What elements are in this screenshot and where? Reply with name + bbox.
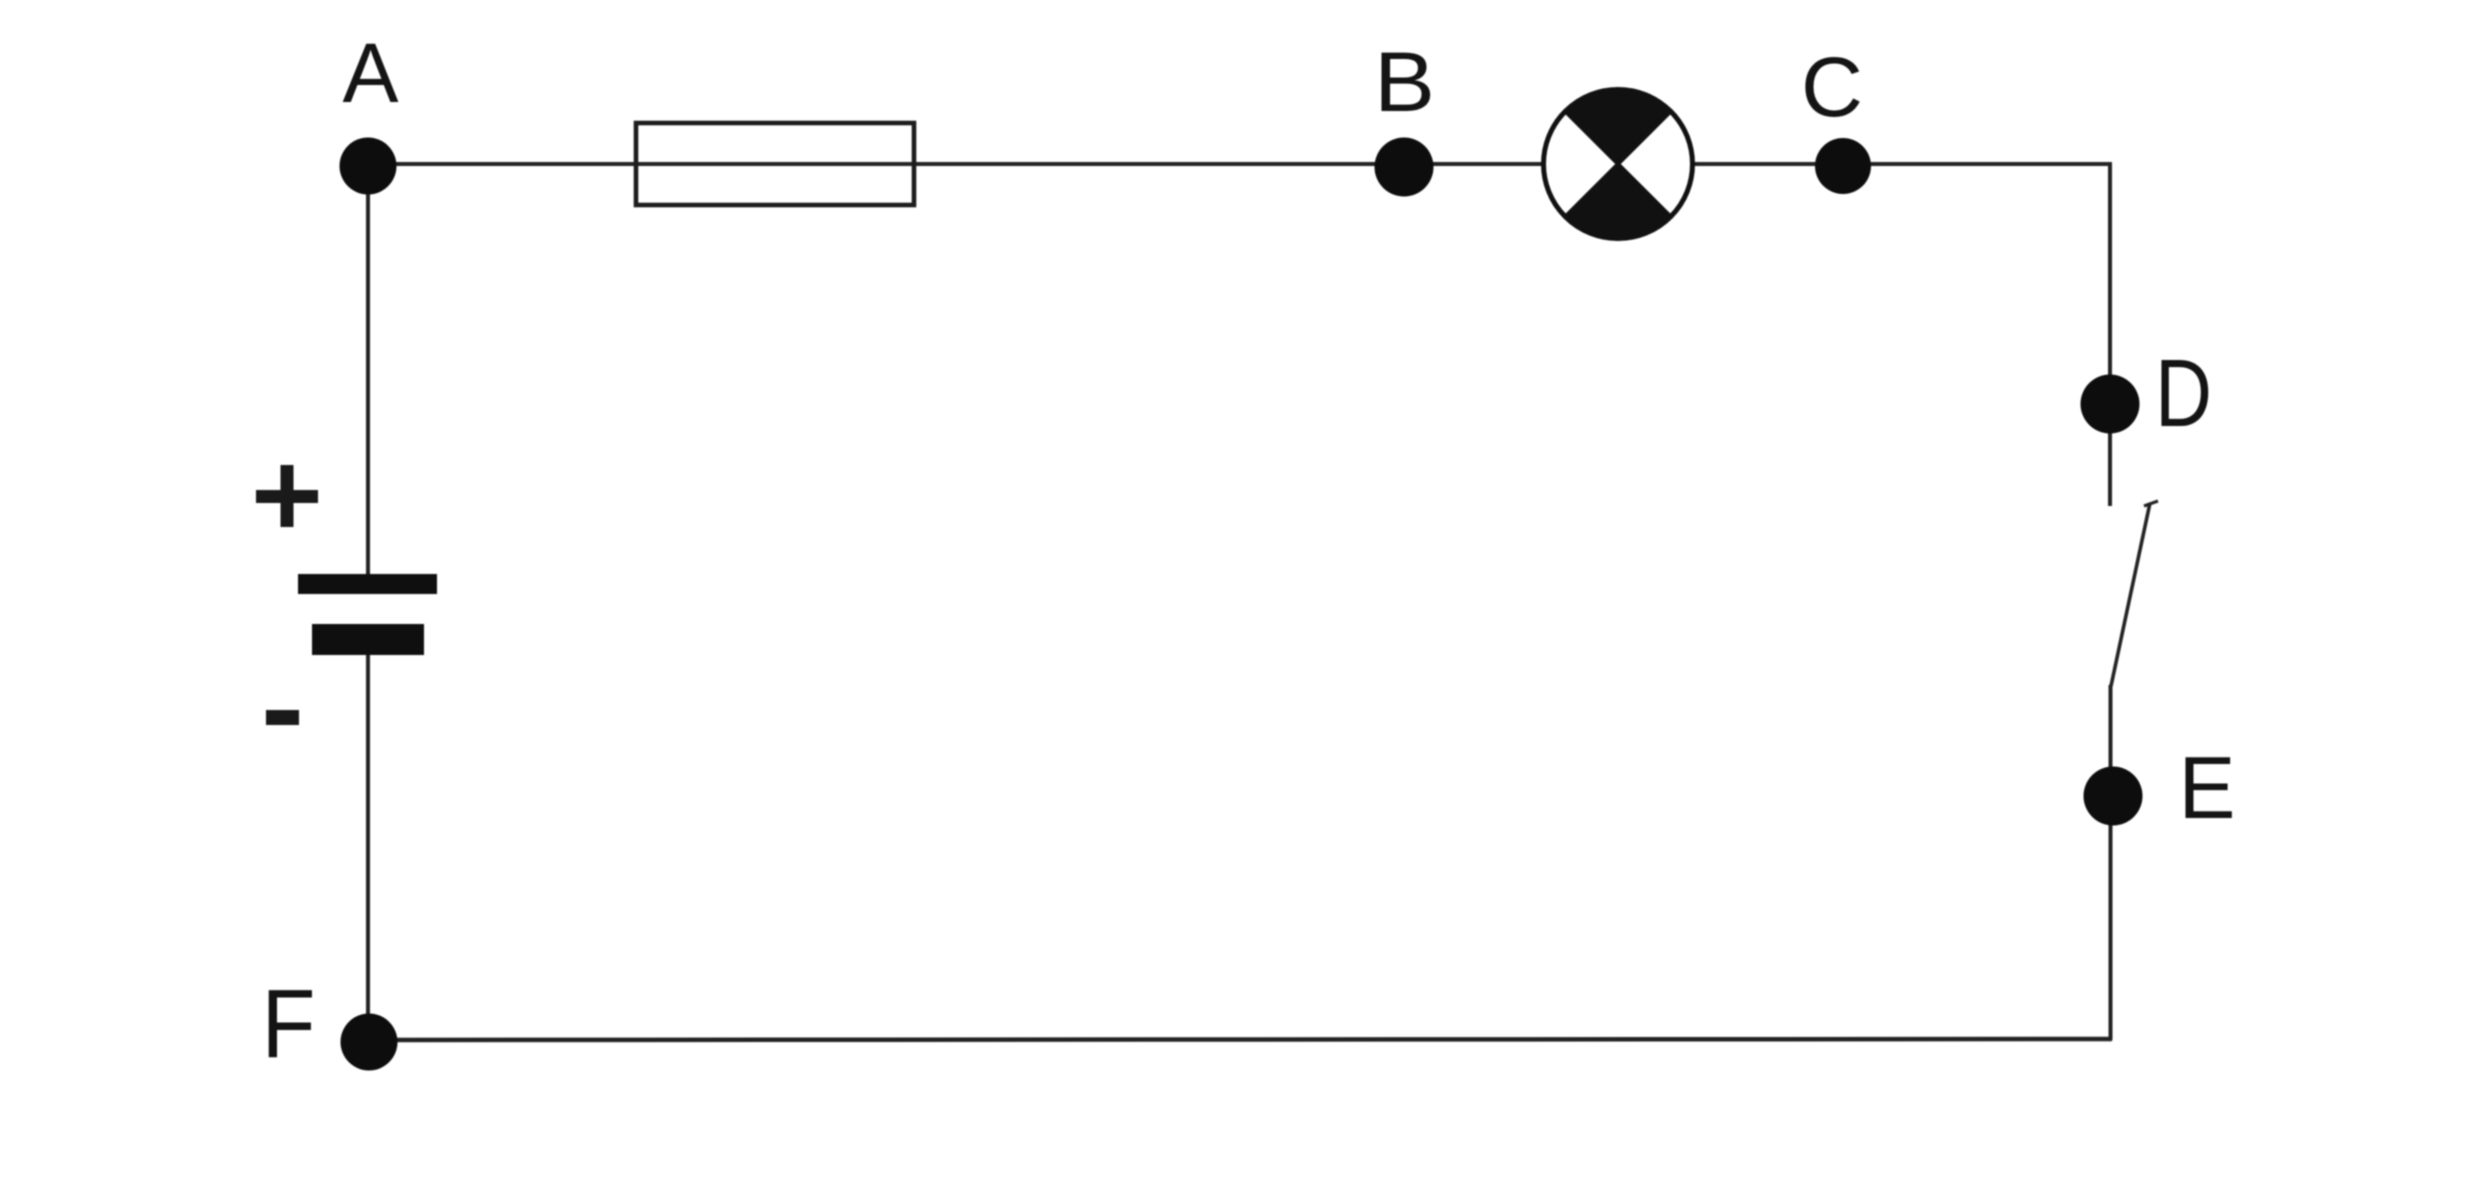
battery minus label: [266, 710, 299, 725]
node A: [340, 138, 397, 195]
svg-text:B: B: [1374, 35, 1435, 129]
svg-text:A: A: [342, 26, 398, 120]
lamp: [1544, 89, 1693, 238]
node B: [1375, 138, 1434, 197]
wire: bottom, F to bottom-right corner: [369, 1039, 2112, 1040]
svg-text:C: C: [1801, 40, 1863, 134]
node C: [1815, 138, 1871, 194]
wire: top, A to lamp left: [368, 162, 1544, 166]
switch: [2111, 501, 2158, 686]
wire: top, lamp right to top-right corner: [1693, 162, 2111, 166]
svg-text:F: F: [262, 969, 316, 1078]
battery: [298, 574, 437, 655]
wire: switch bottom to E and down to bottom wire: [2109, 685, 2113, 1040]
svg-text:D: D: [2155, 340, 2212, 447]
fuse: [636, 123, 914, 205]
node F: [341, 1014, 398, 1071]
wire: left side, battery bottom plate down to F: [366, 653, 370, 1040]
wire: right side, corner down to switch top: [2108, 162, 2112, 506]
battery plus label: [256, 465, 318, 527]
wire: left side, A down to battery top plate: [366, 166, 370, 576]
node D: [2081, 375, 2140, 434]
node E: [2084, 767, 2143, 826]
svg-text:E: E: [2179, 738, 2236, 837]
